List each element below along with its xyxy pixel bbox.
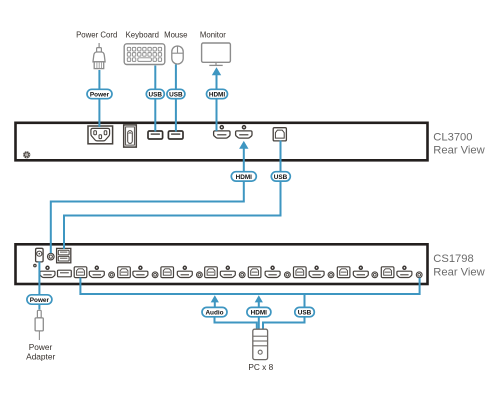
svg-text:HDMI: HDMI (236, 174, 253, 181)
svg-text:USB: USB (274, 174, 288, 181)
svg-text:Power: Power (90, 91, 110, 98)
svg-text:HDMI: HDMI (209, 91, 226, 98)
svg-text:Rear View: Rear View (433, 145, 485, 157)
svg-text:Mouse: Mouse (164, 31, 187, 40)
svg-text:USB: USB (149, 91, 163, 98)
svg-text:CL3700: CL3700 (433, 131, 472, 143)
svg-text:PC x 8: PC x 8 (248, 362, 273, 372)
svg-text:USB: USB (169, 91, 183, 98)
svg-text:CS1798: CS1798 (433, 253, 473, 265)
svg-text:Adapter: Adapter (26, 352, 55, 362)
svg-text:Power Cord: Power Cord (76, 31, 117, 40)
svg-text:Audio: Audio (205, 310, 223, 317)
svg-text:USB: USB (298, 310, 312, 317)
svg-text:Keyboard: Keyboard (126, 31, 159, 40)
svg-text:Monitor: Monitor (200, 31, 226, 40)
svg-text:Power: Power (30, 297, 50, 304)
svg-text:Power: Power (29, 342, 53, 352)
svg-text:HDMI: HDMI (251, 310, 268, 317)
svg-text:Rear View: Rear View (433, 266, 485, 278)
